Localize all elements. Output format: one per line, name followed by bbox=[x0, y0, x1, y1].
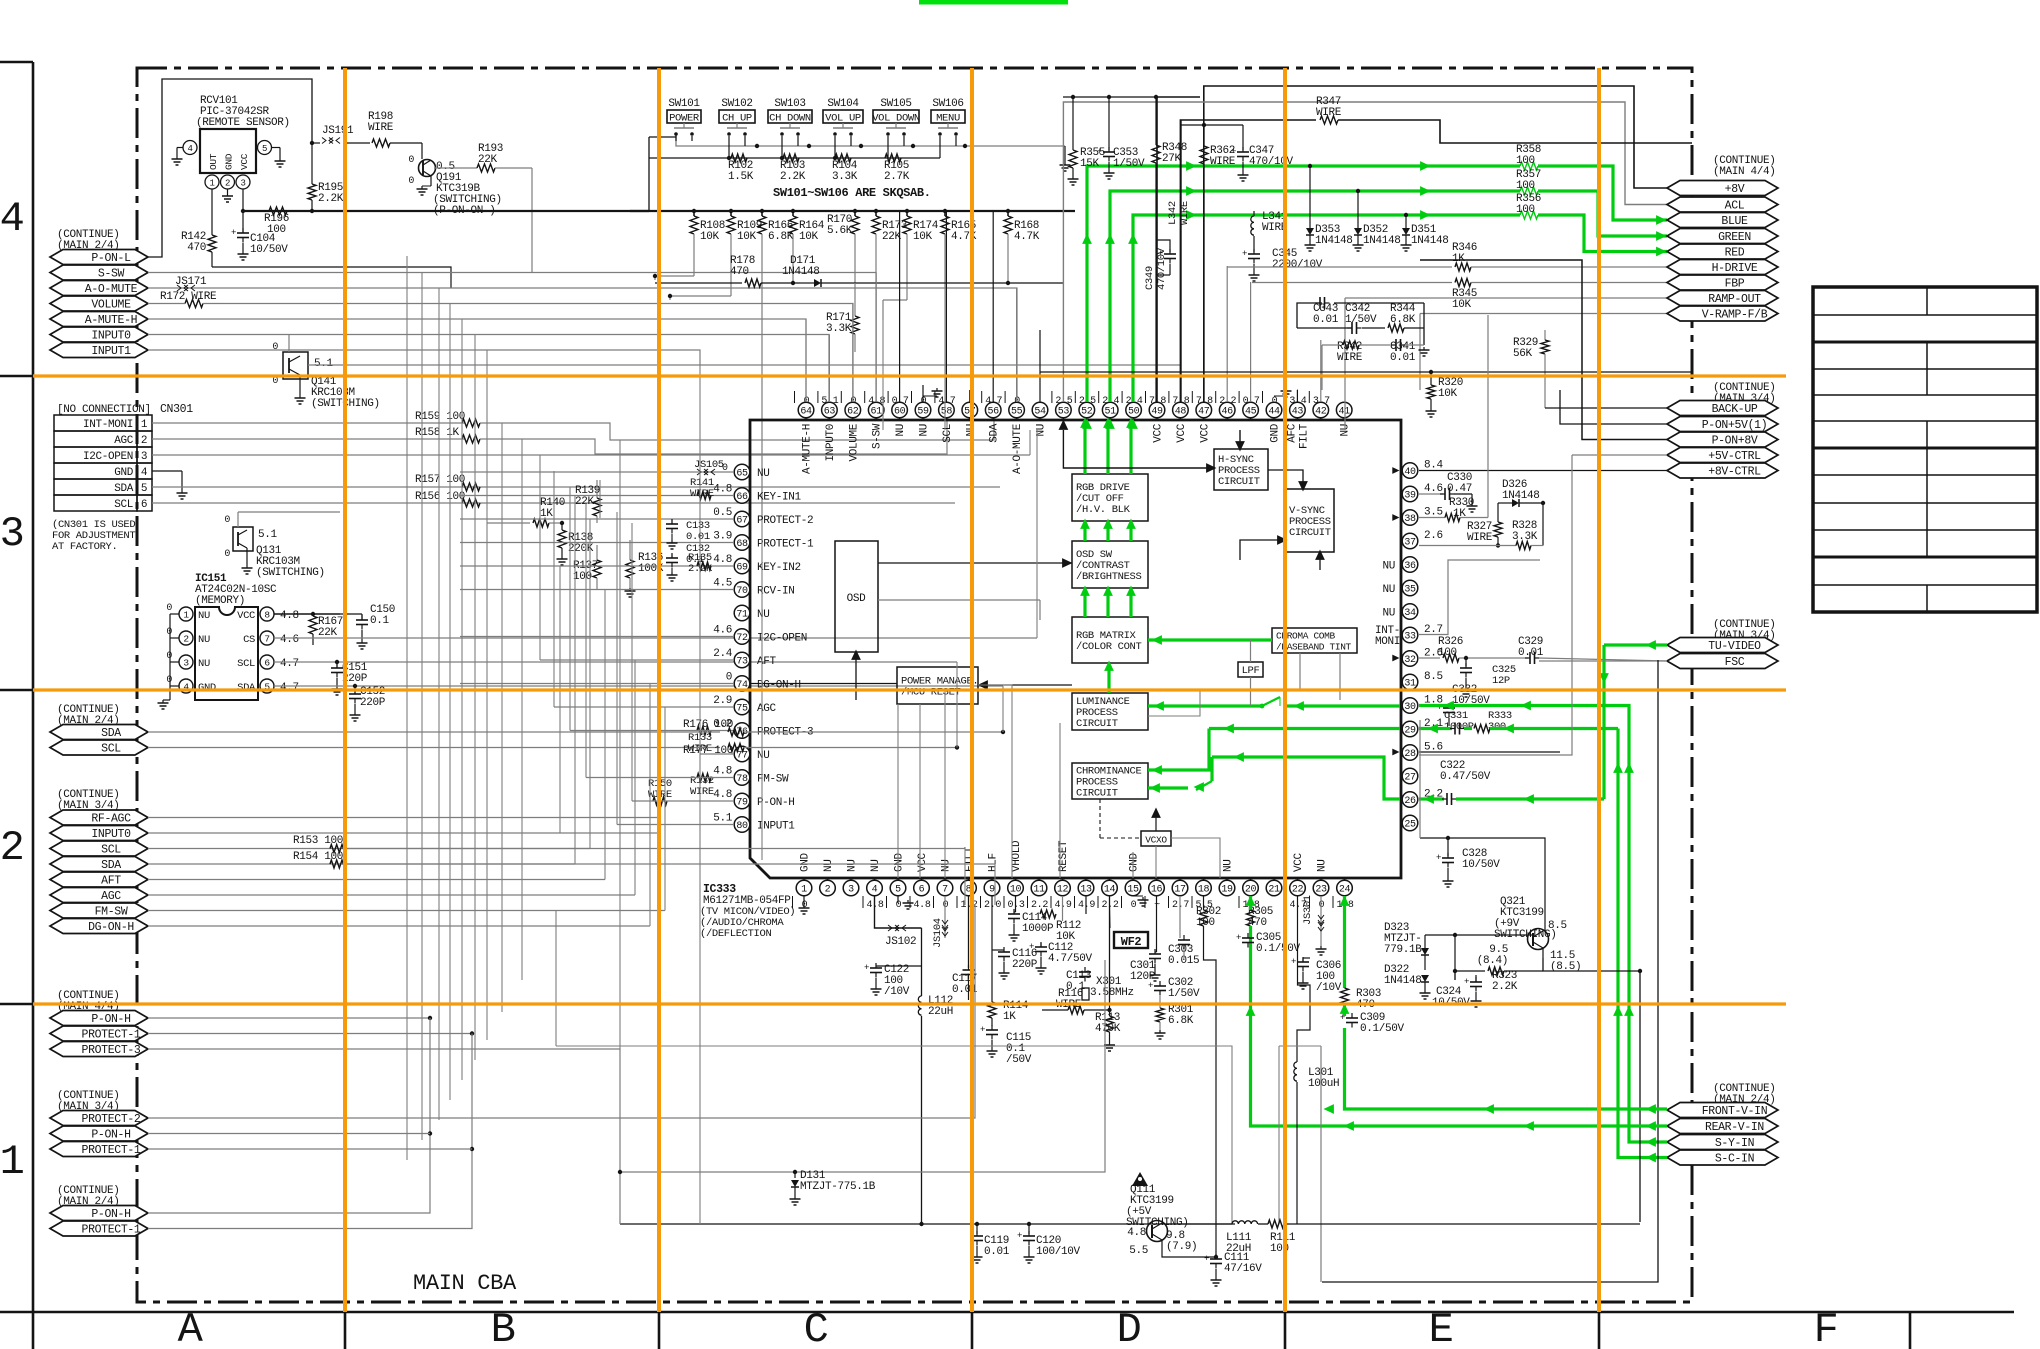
svg-text:I2C-OPEN: I2C-OPEN bbox=[83, 451, 133, 463]
svg-text:P-ON-H: P-ON-H bbox=[91, 1129, 130, 1142]
transistor Q111 KTC3199 bbox=[1126, 1172, 1197, 1257]
svg-text:INPUT1: INPUT1 bbox=[757, 821, 795, 833]
svg-text:49: 49 bbox=[1151, 406, 1163, 417]
svg-text:33: 33 bbox=[1404, 631, 1416, 642]
svg-text:JS171: JS171 bbox=[175, 276, 207, 288]
svg-text:10/50V: 10/50V bbox=[250, 244, 288, 256]
svg-text:69: 69 bbox=[736, 562, 748, 573]
svg-text:(SWITCHING): (SWITCHING) bbox=[256, 567, 325, 579]
wire q321 emitter bbox=[1543, 958, 1640, 971]
wire green tu-video bbox=[1604, 643, 1667, 646]
svg-text:2.2: 2.2 bbox=[1031, 900, 1048, 911]
node V-RAMP-F/B bbox=[1667, 306, 1778, 321]
node S-C-IN bbox=[1667, 1150, 1778, 1165]
svg-text:25: 25 bbox=[1404, 819, 1416, 830]
wire inner routing bbox=[978, 685, 1012, 878]
wire key bus y211 bbox=[630, 210, 649, 212]
wire top pin stubs bbox=[806, 211, 1040, 402]
svg-text:20: 20 bbox=[1245, 884, 1257, 895]
switch SW103 CH DOWN bbox=[768, 98, 812, 141]
svg-text:27: 27 bbox=[1404, 772, 1416, 783]
svg-text:4.7K: 4.7K bbox=[1014, 231, 1040, 243]
svg-text:1N4148: 1N4148 bbox=[1315, 235, 1353, 247]
svg-text:4: 4 bbox=[872, 884, 878, 895]
svg-text:0: 0 bbox=[943, 900, 949, 911]
grid orange lines bbox=[33, 68, 1786, 1312]
node +8V bbox=[1667, 181, 1778, 196]
resistor R170 5.6K bbox=[853, 209, 857, 213]
dash-dot board outline bbox=[137, 68, 1692, 1302]
svg-text:5.6K: 5.6K bbox=[827, 225, 853, 237]
ic IC333 top pins bbox=[795, 391, 1352, 474]
svg-text:61: 61 bbox=[871, 406, 883, 417]
svg-text:RED: RED bbox=[1725, 247, 1745, 260]
svg-text:100: 100 bbox=[573, 571, 592, 583]
svg-text:GND: GND bbox=[114, 467, 134, 479]
svg-text:37: 37 bbox=[1404, 537, 1416, 548]
svg-text:+: + bbox=[1204, 1254, 1209, 1264]
ic IC333 labels bbox=[700, 883, 795, 940]
node S-Y-IN bbox=[1667, 1135, 1778, 1150]
svg-text:VOL DOWN: VOL DOWN bbox=[872, 113, 920, 125]
wire Q141 net bbox=[288, 335, 290, 353]
ground C330 bbox=[1471, 503, 1473, 506]
wire OSD to OSD SW bbox=[878, 562, 1072, 564]
svg-text:R153 100: R153 100 bbox=[293, 835, 343, 847]
svg-text:71: 71 bbox=[736, 609, 748, 620]
switch SW105 VOL DOWN bbox=[872, 98, 920, 141]
block RGB MATRIX bbox=[1072, 617, 1148, 663]
svg-text:9: 9 bbox=[989, 884, 995, 895]
svg-text:[NO CONNECTION]: [NO CONNECTION] bbox=[57, 404, 151, 416]
svg-text:MTZJT-775.1B: MTZJT-775.1B bbox=[800, 1181, 876, 1193]
svg-text:SW102: SW102 bbox=[721, 98, 752, 110]
node AGC bbox=[50, 888, 148, 903]
wire ramp-out net bbox=[1345, 297, 1667, 299]
svg-text:4.6: 4.6 bbox=[713, 625, 732, 637]
svg-text:PROTECT-1: PROTECT-1 bbox=[757, 539, 814, 551]
svg-text:3: 3 bbox=[141, 451, 147, 463]
svg-text:MENU: MENU bbox=[936, 113, 960, 125]
svg-text:NU: NU bbox=[941, 859, 953, 872]
wire lpf vertical bbox=[1250, 640, 1252, 662]
svg-text:JS301: JS301 bbox=[1302, 895, 1314, 925]
block POWER MANAGE bbox=[897, 667, 978, 704]
svg-text:2.7K: 2.7K bbox=[884, 171, 910, 183]
svg-text:RF-AGC: RF-AGC bbox=[91, 813, 131, 826]
svg-text:62: 62 bbox=[847, 406, 859, 417]
svg-text:NU: NU bbox=[870, 859, 882, 872]
svg-text:P-ON-L: P-ON-L bbox=[91, 252, 131, 265]
ic IC333 right pins bbox=[1382, 460, 1443, 831]
svg-text:0: 0 bbox=[1014, 396, 1020, 407]
wire bottom long line bbox=[620, 1223, 1235, 1225]
block LPF bbox=[1238, 662, 1263, 677]
svg-text:10/50V: 10/50V bbox=[1462, 859, 1500, 871]
svg-text:GREEN: GREEN bbox=[1718, 231, 1751, 244]
svg-text:63: 63 bbox=[824, 406, 836, 417]
svg-text:10K: 10K bbox=[737, 231, 757, 243]
svg-text:NU: NU bbox=[1382, 584, 1395, 596]
wire power manage arrow bbox=[984, 684, 1072, 686]
svg-text:34: 34 bbox=[1404, 608, 1416, 619]
svg-text:470: 470 bbox=[730, 266, 749, 278]
wire S-SW to pin61 bbox=[148, 273, 876, 421]
svg-text:1.5K: 1.5K bbox=[728, 171, 754, 183]
svg-text:0.01: 0.01 bbox=[1518, 647, 1544, 659]
wire INPUT1 bbox=[148, 350, 700, 365]
svg-text:0: 0 bbox=[726, 672, 732, 684]
wire r302 down bbox=[1204, 934, 1217, 1257]
svg-text:79: 79 bbox=[736, 797, 748, 808]
svg-text:VCC: VCC bbox=[917, 852, 929, 872]
svg-text:100: 100 bbox=[1516, 180, 1535, 192]
svg-text:1000P: 1000P bbox=[1022, 923, 1054, 935]
svg-text:JS102: JS102 bbox=[885, 936, 916, 948]
svg-text:4.8: 4.8 bbox=[914, 900, 931, 911]
svg-text:0: 0 bbox=[722, 463, 728, 474]
svg-text:R154 100: R154 100 bbox=[293, 851, 343, 863]
svg-text:P-ON+8V: P-ON+8V bbox=[1712, 435, 1758, 448]
svg-text:8.4: 8.4 bbox=[1424, 460, 1444, 472]
wire top net4 bbox=[1157, 97, 1200, 402]
switch SW101 POWER bbox=[667, 98, 701, 141]
svg-text:0: 0 bbox=[166, 675, 172, 686]
wire green GREEN run bbox=[1110, 191, 1520, 402]
svg-text:1: 1 bbox=[801, 884, 807, 895]
svg-text:21: 21 bbox=[1268, 884, 1280, 895]
svg-text:+: + bbox=[1236, 933, 1241, 943]
ground C325 bbox=[1465, 688, 1467, 691]
node REAR-V-IN bbox=[1667, 1119, 1778, 1134]
svg-text:0: 0 bbox=[1131, 900, 1137, 911]
svg-text:78: 78 bbox=[736, 774, 748, 785]
svg-text:2: 2 bbox=[141, 435, 147, 447]
ground C328 bbox=[1447, 878, 1449, 881]
wire pin22 down bbox=[1298, 896, 1311, 992]
svg-text:2.2: 2.2 bbox=[1219, 396, 1236, 407]
wire pin37 net bbox=[1419, 545, 1516, 547]
svg-text:3: 3 bbox=[0, 510, 24, 558]
wire RCV101 pin4 bbox=[177, 147, 183, 149]
ic IC333 bottom pins bbox=[793, 840, 1354, 911]
svg-text:2.6: 2.6 bbox=[1424, 530, 1443, 542]
svg-text:NU: NU bbox=[198, 658, 210, 670]
svg-text:0.5: 0.5 bbox=[713, 507, 732, 519]
svg-text:/10V: /10V bbox=[1316, 982, 1342, 994]
svg-text:10K: 10K bbox=[913, 231, 933, 243]
svg-text:S-SW: S-SW bbox=[872, 423, 884, 449]
wire IC151 left bus bbox=[169, 614, 171, 700]
svg-text:GND: GND bbox=[198, 682, 216, 694]
svg-text:SW105: SW105 bbox=[880, 98, 911, 110]
svg-text:3.5: 3.5 bbox=[1424, 507, 1443, 519]
svg-text:2.2K: 2.2K bbox=[1492, 981, 1518, 993]
svg-text:43: 43 bbox=[1292, 406, 1304, 417]
svg-text:A-O-MUTE: A-O-MUTE bbox=[1012, 423, 1024, 474]
svg-text:VCC: VCC bbox=[239, 153, 250, 170]
svg-text:4.7: 4.7 bbox=[280, 658, 299, 670]
svg-text:NU: NU bbox=[1382, 608, 1395, 620]
wire IC151 sda bbox=[274, 685, 1003, 687]
wire CN301 to right bbox=[152, 423, 1030, 503]
svg-text:7: 7 bbox=[264, 634, 269, 645]
svg-text:65: 65 bbox=[736, 468, 748, 479]
svg-text:17: 17 bbox=[1174, 884, 1186, 895]
svg-text:2: 2 bbox=[183, 634, 189, 645]
svg-text:/BASEBAND TINT: /BASEBAND TINT bbox=[1276, 642, 1352, 653]
wire vertical 1572 bbox=[1419, 455, 1572, 755]
wire c349 bbox=[1156, 274, 1170, 276]
svg-text:27K: 27K bbox=[1162, 153, 1182, 165]
svg-text:40: 40 bbox=[1404, 467, 1416, 478]
svg-text:58: 58 bbox=[941, 406, 953, 417]
svg-text:2200/10V: 2200/10V bbox=[1272, 259, 1323, 271]
svg-text:SW103: SW103 bbox=[774, 98, 805, 110]
ic RCV101 remote sensor bbox=[183, 95, 290, 189]
svg-text:6: 6 bbox=[141, 499, 147, 511]
wire green pin30 inside bbox=[1279, 697, 1281, 706]
svg-text:RAMP-OUT: RAMP-OUT bbox=[1708, 293, 1761, 306]
svg-text:INPUT0: INPUT0 bbox=[91, 828, 131, 841]
transistor Q191 KTC319B bbox=[408, 155, 501, 217]
svg-text:SW101~SW106 ARE SKQSAB.: SW101~SW106 ARE SKQSAB. bbox=[773, 186, 931, 200]
node H-DRIVE bbox=[1667, 260, 1778, 275]
wire vertical buses center bbox=[957, 430, 1037, 905]
block OSD SW bbox=[1072, 541, 1148, 588]
svg-text:4.6: 4.6 bbox=[1424, 483, 1443, 495]
wire left pins feed bbox=[460, 472, 734, 684]
node P-ON-L bbox=[50, 250, 148, 265]
svg-text:2.7: 2.7 bbox=[1172, 900, 1189, 911]
ground D322 bbox=[1424, 990, 1426, 993]
svg-text:VCC: VCC bbox=[1199, 423, 1211, 443]
svg-text:FILT: FILT bbox=[1298, 423, 1310, 449]
svg-text:+: + bbox=[1436, 853, 1441, 863]
diode D351 1N4148 bbox=[1404, 213, 1408, 217]
svg-text:4.6: 4.6 bbox=[280, 634, 299, 646]
svg-text:1N4148: 1N4148 bbox=[1502, 490, 1540, 502]
svg-text:NU: NU bbox=[1223, 859, 1235, 872]
svg-text:54: 54 bbox=[1034, 406, 1046, 417]
wire +5v-ctrl net bbox=[1572, 454, 1667, 456]
svg-text:AGC: AGC bbox=[114, 435, 134, 447]
node SDA bbox=[50, 725, 148, 740]
svg-text:2.9: 2.9 bbox=[713, 695, 732, 707]
svg-text:39: 39 bbox=[1404, 490, 1416, 501]
node FSC bbox=[1667, 654, 1778, 669]
table right bbox=[1813, 287, 2037, 612]
wire green chrominance 2 bbox=[1212, 757, 1400, 799]
svg-text:8: 8 bbox=[264, 610, 270, 621]
svg-text:VCC: VCC bbox=[1293, 852, 1305, 872]
svg-text:+: + bbox=[1291, 957, 1296, 967]
svg-text:PROTECT-1: PROTECT-1 bbox=[82, 1029, 141, 1042]
svg-text:52: 52 bbox=[1081, 406, 1093, 417]
svg-text:WIRE: WIRE bbox=[368, 122, 394, 134]
diode D353 1N4148 bbox=[1308, 164, 1312, 168]
svg-text:4: 4 bbox=[0, 195, 24, 243]
node A-MUTE-H bbox=[50, 312, 148, 327]
svg-text:S-SW: S-SW bbox=[98, 268, 125, 281]
svg-text:C349: C349 bbox=[1144, 266, 1156, 290]
node INPUT1 bbox=[50, 343, 148, 358]
svg-text:2.2: 2.2 bbox=[1102, 900, 1119, 911]
svg-text:56K: 56K bbox=[1513, 348, 1533, 360]
node FBP bbox=[1667, 275, 1778, 290]
wire green matrix-luminance bbox=[1107, 663, 1110, 693]
node BACK-UP bbox=[1667, 401, 1778, 416]
svg-text:RCV-IN: RCV-IN bbox=[757, 586, 795, 598]
svg-text:ACL: ACL bbox=[1725, 200, 1745, 213]
svg-text:+: + bbox=[1158, 249, 1163, 259]
svg-text:0: 0 bbox=[272, 376, 278, 387]
svg-text:1N4148: 1N4148 bbox=[1363, 235, 1401, 247]
svg-text:0: 0 bbox=[166, 651, 172, 662]
svg-text:1N4148: 1N4148 bbox=[782, 266, 820, 278]
svg-text:OUT: OUT bbox=[208, 153, 219, 170]
svg-text:2.2K: 2.2K bbox=[780, 171, 806, 183]
svg-text:S-C-IN: S-C-IN bbox=[1715, 1153, 1754, 1166]
node P-ON+5V(1) bbox=[1667, 417, 1778, 432]
svg-text:VOLUME: VOLUME bbox=[91, 299, 131, 312]
wire scl net bbox=[148, 747, 720, 749]
svg-text:NU: NU bbox=[847, 859, 859, 872]
wire vcc bus y211 bbox=[243, 210, 1075, 212]
svg-text:WIRE: WIRE bbox=[1210, 156, 1236, 168]
block H-SYNC bbox=[1214, 449, 1268, 490]
block V-SYNC bbox=[1285, 489, 1334, 552]
svg-text:55: 55 bbox=[1011, 406, 1023, 417]
svg-text:TU-VIDEO: TU-VIDEO bbox=[1708, 640, 1761, 653]
svg-text:30: 30 bbox=[1404, 702, 1416, 713]
svg-text:26: 26 bbox=[1404, 796, 1416, 807]
svg-text:0.01: 0.01 bbox=[984, 1246, 1010, 1258]
svg-text:+: + bbox=[1148, 981, 1153, 991]
svg-text:4.7/50V: 4.7/50V bbox=[1048, 953, 1093, 965]
svg-text:PROTECT-3: PROTECT-3 bbox=[82, 1044, 141, 1057]
svg-text:DG-ON-H: DG-ON-H bbox=[88, 921, 134, 934]
svg-text:CH UP: CH UP bbox=[722, 113, 752, 125]
ground RCV101 pin4 bbox=[176, 156, 178, 159]
svg-text:+: + bbox=[1340, 1013, 1345, 1023]
svg-text:0.47: 0.47 bbox=[1447, 483, 1472, 495]
svg-text:AGC: AGC bbox=[757, 703, 777, 715]
svg-text:CS: CS bbox=[243, 634, 255, 646]
ground IC151 bbox=[162, 700, 164, 703]
svg-text:0.7: 0.7 bbox=[892, 396, 909, 407]
svg-text:E: E bbox=[1429, 1306, 1454, 1349]
svg-text:16: 16 bbox=[1151, 884, 1163, 895]
svg-text:73: 73 bbox=[736, 656, 748, 667]
wire vcxo bbox=[1100, 799, 1141, 838]
svg-text:+: + bbox=[1097, 147, 1102, 157]
wire right mid vertical bbox=[1320, 1046, 1322, 1282]
wire p-on+8v net bbox=[1420, 260, 1667, 440]
svg-text:JS105: JS105 bbox=[694, 459, 724, 471]
svg-text:0.3: 0.3 bbox=[1008, 900, 1025, 911]
svg-text:WF2: WF2 bbox=[1121, 935, 1142, 949]
svg-text:28: 28 bbox=[1404, 749, 1416, 760]
node PROTECT-1 bbox=[50, 1142, 148, 1157]
svg-text:SW106: SW106 bbox=[932, 98, 963, 110]
capacitor C104 10/50V bbox=[242, 189, 244, 211]
wire vertical 1655 bbox=[1322, 660, 1658, 1282]
wire r320 line bbox=[1040, 371, 1692, 373]
svg-text:WIRE: WIRE bbox=[1316, 107, 1342, 119]
svg-text:P-ON-H: P-ON-H bbox=[91, 1013, 130, 1026]
wire pins 42-45 stubs bbox=[1320, 340, 1322, 402]
svg-text:REAR-V-IN: REAR-V-IN bbox=[1705, 1121, 1764, 1134]
wire green BLUE run bbox=[1087, 166, 1520, 402]
svg-text:22: 22 bbox=[1292, 884, 1304, 895]
node TU-VIDEO bbox=[1667, 638, 1778, 653]
node PROTECT-1 bbox=[50, 1221, 148, 1236]
wire vertical 1640 bbox=[1639, 971, 1641, 1222]
block CHROMINANCE bbox=[1072, 763, 1148, 800]
wire top net3 bbox=[1180, 120, 1316, 402]
svg-text:R172 WIRE: R172 WIRE bbox=[160, 291, 217, 303]
svg-text:CIRCUIT: CIRCUIT bbox=[1289, 527, 1331, 539]
svg-text:WIRE: WIRE bbox=[1337, 352, 1363, 364]
svg-text:BACK-UP: BACK-UP bbox=[1712, 403, 1758, 416]
svg-text:PROTECT-2: PROTECT-2 bbox=[82, 1113, 141, 1126]
transistor Q131 KRC103M bbox=[224, 515, 324, 579]
wire switch rail 2 bbox=[728, 141, 730, 158]
svg-text:5: 5 bbox=[141, 483, 147, 495]
svg-text:H-DRIVE: H-DRIVE bbox=[1712, 262, 1758, 275]
svg-text:4.8: 4.8 bbox=[713, 766, 732, 778]
svg-text:INPUT0: INPUT0 bbox=[91, 330, 131, 343]
svg-text:FRONT-V-IN: FRONT-V-IN bbox=[1702, 1105, 1768, 1118]
svg-text:0: 0 bbox=[166, 603, 172, 614]
svg-text:24: 24 bbox=[1339, 884, 1351, 895]
svg-text:1: 1 bbox=[141, 419, 148, 431]
svg-text:P-ON+5V(1): P-ON+5V(1) bbox=[1702, 419, 1768, 432]
svg-text:POWER: POWER bbox=[669, 113, 700, 125]
svg-text:SDA: SDA bbox=[101, 727, 121, 740]
wire IC151 vcc bbox=[274, 613, 340, 615]
wire left vertical buses bbox=[407, 256, 734, 1160]
svg-text:18: 18 bbox=[1198, 884, 1210, 895]
ground CN301 pin4 bbox=[181, 490, 183, 493]
svg-text:+: + bbox=[1017, 1231, 1022, 1241]
svg-text:100/10V: 100/10V bbox=[1036, 1246, 1081, 1258]
svg-text:(/DEFLECTION: (/DEFLECTION bbox=[700, 928, 771, 940]
block OSD bbox=[835, 541, 878, 652]
node PROTECT-3 bbox=[50, 1042, 148, 1057]
svg-text:22uH: 22uH bbox=[928, 1006, 953, 1018]
svg-text:+5V-CTRL: +5V-CTRL bbox=[1708, 450, 1761, 463]
svg-text:VCC: VCC bbox=[1153, 423, 1165, 443]
svg-text:0: 0 bbox=[1319, 900, 1325, 911]
svg-text:PROTECT-1: PROTECT-1 bbox=[82, 1224, 141, 1237]
svg-text:1/50V: 1/50V bbox=[1113, 158, 1145, 170]
svg-text:3.9: 3.9 bbox=[713, 531, 732, 543]
wire v-ramp net bbox=[1420, 313, 1667, 315]
svg-text:(7.9): (7.9) bbox=[1166, 1241, 1197, 1253]
wire green chrominance right bbox=[1148, 729, 1209, 771]
svg-text:0.1/50V: 0.1/50V bbox=[1360, 1023, 1405, 1035]
wire bank verticals bbox=[653, 234, 1010, 520]
svg-text:R176 100: R176 100 bbox=[683, 719, 733, 731]
wire p-on-h vert 430 bbox=[148, 1018, 430, 1213]
wire sda net bbox=[148, 731, 720, 733]
svg-text:SDA: SDA bbox=[237, 682, 256, 694]
wire green RED run bbox=[1133, 215, 1520, 402]
svg-text:48: 48 bbox=[1175, 406, 1187, 417]
svg-text:15: 15 bbox=[1127, 884, 1139, 895]
